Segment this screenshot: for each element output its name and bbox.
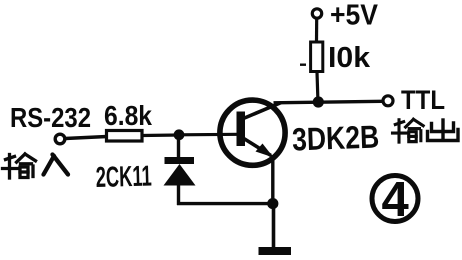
diode D1 2CK11 triangle (anode, pointing up) bbox=[164, 164, 196, 186]
node B (emitter/ground junction) bbox=[267, 198, 278, 209]
label 输出 (output) : 输 bbox=[393, 119, 424, 142]
transistor Q1 circle bbox=[220, 100, 285, 165]
terminal: TTL output bbox=[383, 96, 393, 106]
label 输出 (output) : 出 bbox=[428, 120, 459, 141]
wire: collector rail to TTL terminal bbox=[274, 101, 383, 103]
diode D1 2CK11 cathode bar bbox=[165, 157, 195, 164]
svg-text:RS-232: RS-232 bbox=[10, 102, 91, 133]
wire: node B down to ground bbox=[272, 204, 276, 249]
wire: node A to transistor base bbox=[179, 133, 239, 137]
node C (collector/10k junction) bbox=[313, 96, 324, 107]
transistor Q1 emitter arrow bbox=[256, 144, 274, 158]
terminal: RS-232 input bbox=[55, 134, 65, 144]
svg-text:TTL: TTL bbox=[401, 85, 445, 115]
wire: +5V terminal to resistor 10k bbox=[315, 18, 318, 41]
ground symbol bbox=[259, 247, 292, 255]
resistor R1 6.8k bbox=[107, 131, 143, 142]
resistor R2 10k bbox=[311, 42, 323, 72]
figure number circled 4 bbox=[372, 176, 418, 222]
wire: emitter down to node B bbox=[271, 155, 274, 205]
svg-text:2CK11: 2CK11 bbox=[95, 161, 152, 194]
node A (base/diode junction) bbox=[174, 129, 185, 140]
label 输入 (input) : 输 bbox=[3, 154, 36, 178]
terminal: +5V bbox=[312, 9, 321, 18]
wire: node A down to diode bbox=[177, 135, 180, 158]
wire: resistor to node A bbox=[142, 133, 180, 137]
transistor Q1 emitter line bbox=[243, 138, 271, 156]
transistor Q1 base bar bbox=[237, 112, 246, 147]
transistor Q1 collector line bbox=[241, 103, 281, 120]
wire: bottom run diode to emitter node bbox=[177, 202, 273, 205]
stray mark near resistor R2 bbox=[300, 64, 306, 66]
wire: input terminal to resistor 6.8k bbox=[65, 137, 107, 139]
wire: diode anode down bbox=[177, 184, 180, 205]
svg-text:+5V: +5V bbox=[330, 0, 379, 32]
svg-text:4: 4 bbox=[382, 173, 409, 227]
svg-text:6.8k: 6.8k bbox=[104, 100, 152, 131]
wire: resistor 10k down to node C bbox=[317, 72, 318, 103]
label 入 (input) bbox=[44, 155, 69, 175]
svg-text:3DK2B: 3DK2B bbox=[292, 118, 380, 157]
svg-text:I0k: I0k bbox=[328, 42, 371, 74]
